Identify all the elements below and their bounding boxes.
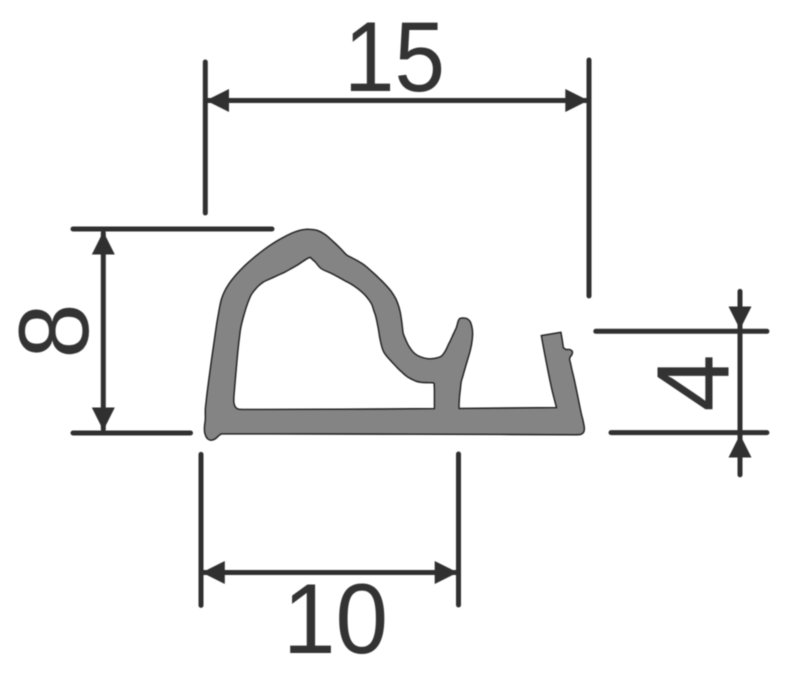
extension line top (y=229) xyxy=(73,227,272,232)
arrowhead left xyxy=(206,89,229,112)
dimension 4 (right height) xyxy=(596,291,767,474)
svg-text:15: 15 xyxy=(344,1,445,112)
arrowhead left xyxy=(202,561,225,584)
arrowhead right xyxy=(565,89,588,112)
svg-text:4: 4 xyxy=(636,354,751,411)
svg-text:8: 8 xyxy=(0,303,109,358)
arrowhead down (above top line) xyxy=(729,307,752,330)
dimension line 8 xyxy=(101,233,106,429)
arrowhead right xyxy=(435,561,458,584)
dimension line 4 xyxy=(738,291,743,474)
dimension line 15 xyxy=(207,98,587,103)
extension line left (x=201) xyxy=(199,454,204,605)
extension line bottom (y=433) xyxy=(73,431,191,436)
dimension 8 (left height) xyxy=(73,229,272,433)
arrowhead down xyxy=(92,408,115,431)
dimension 15 (top width) xyxy=(205,60,589,296)
dimension line 10 xyxy=(203,570,457,575)
extension line top (y=331) xyxy=(596,329,767,334)
svg-text:10: 10 xyxy=(283,563,388,674)
seal profile cross-section (gray extrusion) xyxy=(204,229,584,440)
extension line right (x=589) xyxy=(587,60,592,296)
extension line bottom (y=432.6) xyxy=(611,430,767,435)
arrowhead up (below bottom line) xyxy=(729,435,752,458)
extension line left (x=205) xyxy=(203,62,208,213)
arrowhead up xyxy=(92,232,115,255)
dimension 10 (bottom width) xyxy=(201,454,459,605)
extension line right (x=458.5) xyxy=(456,454,461,605)
